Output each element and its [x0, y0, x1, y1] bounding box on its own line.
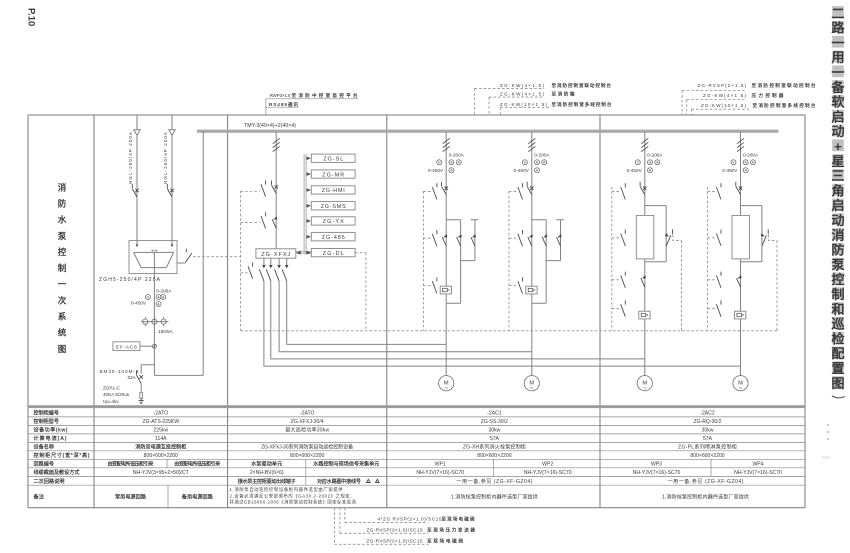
- WP1 delta branch: [446, 220, 460, 304]
- svg-text:800×600×2200: 800×600×2200: [144, 453, 178, 459]
- svg-text:星: 星: [831, 154, 844, 169]
- WP3 tap slashes: [641, 138, 648, 151]
- svg-text:至现场电磁阀: 至现场电磁阀: [427, 537, 463, 544]
- svg-text:57A: 57A: [490, 436, 500, 442]
- WP4 breaker: [736, 182, 742, 195]
- module ZG-YX: [311, 217, 355, 225]
- module ZG-485: [311, 233, 355, 241]
- XFXJ output 3 (to WP3): [271, 258, 645, 359]
- svg-text:WP3: WP3: [651, 462, 662, 468]
- svg-text:控: 控: [58, 247, 67, 257]
- WP4 thermal relay: [735, 311, 746, 319]
- drawing frame: [28, 115, 805, 508]
- incoming feeder 2 breaker: [167, 184, 173, 197]
- svg-text:0-200A: 0-200A: [743, 152, 759, 157]
- svg-text:至现场电磁阀: 至现场电磁阀: [442, 516, 475, 523]
- ATS current transformers 160/5A: [141, 317, 169, 327]
- svg-text:0-200A: 0-200A: [156, 288, 172, 293]
- svg-text:ZGP1-C: ZGP1-C: [103, 386, 121, 391]
- WP3 voltmeter: [635, 160, 640, 165]
- svg-text:消: 消: [58, 182, 67, 192]
- svg-text:P.10: P.10: [26, 8, 37, 26]
- svg-text:至消防中控室监控平台: 至消防中控室监控平台: [292, 92, 358, 99]
- WP2 delta branch: [532, 220, 546, 304]
- svg-text:-2ATO: -2ATO: [154, 411, 169, 417]
- svg-text:-2AC2: -2AC2: [700, 411, 715, 417]
- WP4 voltmeter: [731, 160, 736, 165]
- WP3 aux switch 2: [612, 237, 621, 239]
- svg-text:至消防控制室多线控制台: 至消防控制室多线控制台: [753, 102, 816, 109]
- busbar TMY-3(40x4)+2(40x4): [197, 130, 778, 133]
- WP2 aux switch 3: [509, 285, 518, 287]
- svg-text:EF-ACS: EF-ACS: [116, 345, 137, 351]
- svg-text:ZG-RVSP(2×1.0)/SC15: ZG-RVSP(2×1.0)/SC15: [367, 527, 423, 532]
- svg-text:NH-YJV(7×16)-SC70: NH-YJV(7×16)-SC70: [734, 470, 782, 476]
- svg-text:ZG-SS-30/2: ZG-SS-30/2: [481, 419, 508, 425]
- WP3 thermal relay: [639, 311, 650, 319]
- WP3 bypass contactor: [665, 229, 672, 246]
- motor M4: [733, 376, 748, 393]
- svg-text:制: 制: [58, 263, 67, 273]
- svg-text:动: 动: [831, 124, 844, 139]
- WP3 aux dashed line: [611, 187, 613, 331]
- svg-text:2.设备必须满足公安部颁布的《GA30.2-2002》之规定: 2.设备必须满足公安部颁布的《GA30.2-2002》之规定,: [230, 492, 352, 499]
- XFXJ dashed aux line: [240, 191, 242, 331]
- WP1 voltmeter: [437, 160, 442, 165]
- WP1 aux switch 3: [423, 285, 432, 287]
- svg-text:ZG-ATS-225KW: ZG-ATS-225KW: [142, 419, 179, 425]
- svg-text:一: 一: [58, 279, 67, 289]
- WP2 aux switch 1: [509, 190, 518, 192]
- WP3 soft starter box: [636, 215, 654, 259]
- WP3 main wire: [644, 132, 646, 376]
- svg-text:设备名称: 设备名称: [34, 444, 55, 451]
- svg-text:ZG-YX: ZG-YX: [323, 219, 344, 225]
- svg-text:ZG-RQ-30/2: ZG-RQ-30/2: [693, 419, 721, 425]
- svg-text:BM30-100M-3: BM30-100M-3: [100, 369, 139, 374]
- svg-text:114A: 114A: [155, 436, 167, 442]
- WP3 aux switch 1: [612, 190, 621, 192]
- svg-text:消防双电源互投控制柜: 消防双电源互投控制柜: [135, 444, 186, 451]
- svg-text:ZG-SL: ZG-SL: [323, 157, 343, 163]
- svg-text:+: +: [834, 139, 842, 154]
- right sheet title 二路一用一备软启动＋星三角启动消防泵控制和巡检配置图: [832, 6, 844, 388]
- svg-text:ZG-XFXJ-30/4: ZG-XFXJ-30/4: [291, 419, 324, 425]
- motor M3: [637, 376, 652, 393]
- svg-text:800×600×2200: 800×600×2200: [290, 453, 324, 459]
- XFXJ aux switch 2: [241, 222, 260, 224]
- incoming feeder 1 wire: [136, 135, 138, 240]
- WP2 thermal relay: [526, 286, 537, 294]
- WP3 aux switch 3: [612, 279, 621, 281]
- WP4 aux dashed line: [707, 187, 709, 331]
- module ZG-DL: [311, 249, 355, 257]
- svg-text:ZG-XH系列消火栓泵控制柜: ZG-XH系列消火栓泵控制柜: [463, 444, 526, 451]
- WP4 bypass contactor: [761, 229, 768, 246]
- svg-text:0-450V: 0-450V: [722, 168, 738, 173]
- svg-text:1.消防泵自动巡检控制设备柜内器件选型由厂家提供: 1.消防泵自动巡检控制设备柜内器件选型由厂家提供: [230, 486, 344, 493]
- table row lines: [28, 417, 805, 485]
- svg-text:图: 图: [831, 376, 844, 391]
- svg-text:ZG-XFXJ: ZG-XFXJ: [261, 252, 290, 258]
- motor M1: [439, 376, 454, 393]
- svg-text:RWP3×1.5: RWP3×1.5: [270, 93, 291, 98]
- svg-text:二次回路说明: 二次回路说明: [34, 478, 65, 485]
- WP2 contactor KM3: [557, 234, 562, 246]
- svg-text:至消防箱: 至消防箱: [552, 90, 575, 97]
- BOTTOM CABLE CALLOUTS: [367, 516, 476, 545]
- incoming feeder 2 arrow: [171, 115, 173, 130]
- XFXJ feeder contactor: [272, 216, 277, 228]
- svg-text:泵: 泵: [58, 231, 67, 241]
- svg-text:一: 一: [831, 35, 844, 50]
- XFXJ output 4 (to WP4): [264, 258, 741, 366]
- WP2 main wire: [531, 132, 533, 376]
- WP2 voltmeter: [522, 160, 527, 165]
- table bottom line: [28, 507, 805, 509]
- svg-text:回路编号: 回路编号: [34, 461, 55, 468]
- WP4 main wire: [740, 132, 742, 376]
- svg-text:Up=4kv: Up=4kv: [103, 399, 119, 404]
- WP3 ammeters: [648, 160, 653, 165]
- svg-text:线缆截面及敷设方式: 线缆截面及敷设方式: [34, 469, 81, 476]
- WP2 ammeters: [535, 160, 540, 165]
- TABLE VALUES: [108, 411, 783, 501]
- svg-text:NH-YJV(7×16)-SC70: NH-YJV(7×16)-SC70: [416, 470, 464, 476]
- svg-text:30kw: 30kw: [488, 428, 500, 434]
- WP1 breaker: [442, 182, 448, 195]
- table top thick bar: [28, 405, 805, 408]
- svg-text:225kw: 225kw: [153, 428, 168, 434]
- svg-text:水: 水: [57, 215, 67, 225]
- WP3 bypass branch: [645, 206, 666, 262]
- link XFXJ to ZG-DL (double line with arrows): [296, 252, 312, 254]
- svg-text:0-450V: 0-450V: [428, 168, 444, 173]
- WP4 aux switch 3: [708, 279, 717, 281]
- svg-text:TMY-3(40×4)+2(40×4): TMY-3(40×4)+2(40×4): [244, 123, 296, 129]
- WP1 thermal relay: [440, 286, 451, 294]
- module ZG-HMI: [311, 186, 355, 194]
- svg-text:0-450V: 0-450V: [514, 168, 530, 173]
- svg-text:启: 启: [831, 108, 844, 124]
- svg-text:ZG-PL系列喷淋泵控制柜: ZG-PL系列喷淋泵控制柜: [678, 444, 737, 451]
- svg-text:由变配电所低压柜引来: 由变配电所低压柜引来: [108, 461, 155, 468]
- svg-text:动: 动: [831, 213, 844, 228]
- svg-text:NH-YJV(7×16)-SC70: NH-YJV(7×16)-SC70: [524, 470, 572, 476]
- svg-text:备用电源回路: 备用电源回路: [181, 493, 214, 500]
- svg-text:30kw: 30kw: [702, 428, 714, 434]
- column divider x602: [599, 115, 601, 508]
- svg-text:角: 角: [831, 182, 844, 198]
- svg-text:NH-YJV(3×95+2×50)/CT: NH-YJV(3×95+2×50)/CT: [133, 470, 189, 476]
- RS485 callout leader: [265, 99, 267, 115]
- svg-text:一: 一: [831, 65, 844, 80]
- svg-text:至消防控制室多线控制台: 至消防控制室多线控制台: [552, 101, 612, 108]
- svg-text:水泵驱动单元: 水泵驱动单元: [250, 461, 282, 468]
- svg-text:ZG-SMS: ZG-SMS: [321, 204, 346, 210]
- column divider x227.6: [227, 115, 229, 508]
- svg-text:设备功率(kw): 设备功率(kw): [34, 427, 68, 434]
- WP3 bypass aux dashed link: [673, 235, 682, 331]
- svg-text:最大巡检功率30kw: 最大巡检功率30kw: [285, 427, 329, 434]
- svg-text:ZG-RVSP(2×1.0)/SC15: ZG-RVSP(2×1.0)/SC15: [367, 538, 423, 543]
- ATS transfer switch ZGH5-250/4P 225A: [129, 241, 177, 274]
- incoming feeder 2 wire: [171, 135, 173, 240]
- WP1 star point bar: [461, 220, 479, 261]
- svg-text:0-200A: 0-200A: [647, 152, 663, 157]
- svg-text:统: 统: [58, 328, 67, 338]
- svg-text:配: 配: [831, 346, 845, 361]
- WP1 tap slashes: [443, 138, 450, 151]
- svg-text:0-200A: 0-200A: [449, 152, 465, 157]
- WP4 tap slashes: [737, 138, 744, 151]
- svg-text:NH-YJV(7×16)-SC70: NH-YJV(7×16)-SC70: [633, 470, 681, 476]
- ATS auxiliary contact to XFXJ (dashed): [177, 262, 185, 264]
- svg-text:置: 置: [831, 361, 844, 376]
- WP3 aux switch 4: [612, 308, 621, 310]
- module ZG-SL: [311, 154, 355, 162]
- svg-text:一用一备,参见 (ZG-XF-GZ04): 一用一备,参见 (ZG-XF-GZ04): [456, 478, 532, 485]
- svg-text:对应水路图中接线号: 对应水路图中接线号: [317, 478, 361, 485]
- transducer circle: [152, 344, 156, 348]
- WP1 aux switch 1: [423, 190, 432, 192]
- svg-text:控制柜型号: 控制柜型号: [34, 418, 60, 425]
- svg-text:-2ATO: -2ATO: [300, 411, 315, 417]
- svg-text:RS485通讯: RS485通讯: [269, 101, 298, 108]
- svg-text:系: 系: [58, 312, 67, 322]
- branch to surge protector: [141, 365, 154, 374]
- WP4 bypass aux dashed link: [769, 235, 778, 331]
- svg-text:ZG-KW(10×1.5): ZG-KW(10×1.5): [500, 102, 547, 107]
- svg-text:常用电源回路: 常用电源回路: [115, 493, 147, 500]
- svg-text:ZG-485: ZG-485: [322, 235, 345, 241]
- svg-text:ZG-KW(10×1.5): ZG-KW(10×1.5): [701, 103, 746, 108]
- controller ZG-XFXJ: [256, 249, 296, 258]
- WP1 aux switch 2: [423, 237, 432, 239]
- svg-text:WP1: WP1: [435, 462, 446, 468]
- cubicle enclosure dashed bottom: [241, 330, 777, 332]
- svg-text:800×600×2200: 800×600×2200: [690, 453, 724, 459]
- svg-text:消: 消: [831, 227, 844, 243]
- svg-text:一用一备,参见 (ZG-XF-GZ04): 一用一备,参见 (ZG-XF-GZ04): [668, 478, 744, 485]
- svg-text:和: 和: [830, 302, 844, 317]
- WP2 aux switch 2: [509, 237, 518, 239]
- WP2 breaker: [527, 182, 533, 195]
- WP4 ammeters: [743, 160, 748, 165]
- column divider x386.8: [386, 115, 388, 508]
- rotated open parenthesis after title: [832, 396, 845, 398]
- svg-text:备: 备: [830, 79, 845, 95]
- WP1 ammeters: [449, 160, 454, 165]
- WP2 aux dashed line: [508, 191, 510, 330]
- svg-text:至消防控制室联动控制台: 至消防控制室联动控制台: [752, 82, 816, 89]
- motor M2: [524, 376, 539, 393]
- svg-text:至消防控制室联动控制台: 至消防控制室联动控制台: [552, 82, 612, 89]
- svg-text:57A: 57A: [703, 436, 713, 442]
- WP4 aux switch 2: [708, 237, 717, 239]
- WP2 tap slashes: [528, 138, 535, 151]
- svg-text:63A: 63A: [128, 375, 137, 380]
- svg-text:ZG-KW(4×1.5): ZG-KW(4×1.5): [500, 91, 544, 96]
- svg-text:三: 三: [831, 169, 844, 184]
- svg-text:检: 检: [831, 330, 845, 346]
- svg-text:ZG-KW(4×1.5): ZG-KW(4×1.5): [703, 93, 746, 98]
- svg-text:0-450V: 0-450V: [627, 168, 643, 173]
- svg-text:1.消防栓泵控制柜内器件选型厂家提供: 1.消防栓泵控制柜内器件选型厂家提供: [451, 493, 538, 500]
- XFXJ remark note 3 lines: [230, 486, 358, 506]
- WP4 main contactor: [737, 275, 742, 287]
- svg-text:路: 路: [831, 20, 845, 36]
- svg-text:ZG-RVSP(2×1.5): ZG-RVSP(2×1.5): [698, 83, 747, 88]
- TABLE ROW HEADERS: [33, 410, 90, 501]
- incoming feeder 1 arrow: [136, 115, 138, 130]
- WP4 soft starter box: [732, 215, 750, 259]
- XFXJ feeder tap wire: [275, 132, 277, 249]
- XFXJ feeder 3-phase slashes: [273, 138, 280, 151]
- svg-text:40KA 8/20us: 40KA 8/20us: [103, 392, 130, 397]
- svg-text:二: 二: [831, 6, 844, 21]
- WP1 contactor KM3: [471, 234, 476, 246]
- svg-text:图: 图: [58, 344, 67, 354]
- WP2 star point bar: [546, 220, 564, 261]
- svg-text:用: 用: [831, 50, 844, 65]
- svg-text:控制柜编号: 控制柜编号: [34, 410, 60, 417]
- svg-text:计算电流(A): 计算电流(A): [34, 435, 67, 442]
- WP1 contactor KM2: [457, 234, 462, 246]
- EF-ACS link wire: [140, 345, 152, 347]
- WP2 contactor KM2: [542, 234, 547, 246]
- ZG-DL dashed stub to cubicle edge: [355, 253, 366, 331]
- svg-text:备注: 备注: [33, 493, 45, 500]
- WP1 main wire: [445, 132, 447, 376]
- svg-text:160/5A: 160/5A: [158, 329, 173, 334]
- incoming feeder 1 breaker: [132, 184, 138, 197]
- ground: [139, 398, 144, 403]
- WP2 contactor KM1: [528, 234, 533, 246]
- svg-text:-2AC1: -2AC1: [487, 411, 502, 417]
- svg-text:至现场压力变送器: 至现场压力变送器: [427, 526, 475, 533]
- svg-text:并通过GB16806-2006《消防联动控制系统》国家标准监: 并通过GB16806-2006《消防联动控制系统》国家标准监测.: [230, 499, 358, 506]
- module bus (vertical double line): [304, 154, 306, 253]
- WP1 aux dashed line: [422, 191, 424, 330]
- svg-text:800×600×2200: 800×600×2200: [477, 453, 511, 459]
- svg-text:4*ZG RVSP(2×1.0)/SC15: 4*ZG RVSP(2×1.0)/SC15: [378, 517, 442, 522]
- svg-text:泵: 泵: [831, 257, 845, 272]
- WP1 contactor KM1: [442, 234, 447, 246]
- svg-text:1.消防栓泵控制柜内器件选型厂家提供: 1.消防栓泵控制柜内器件选型厂家提供: [662, 493, 749, 500]
- column divider x94: [93, 115, 95, 508]
- svg-text:接水泵主控柜驱动出线端子: 接水泵主控柜驱动出线端子: [238, 478, 296, 485]
- WP4 aux switch 4: [708, 308, 717, 310]
- svg-text:ZG-XFXJ-30系列消防泵自动巡检控制设备: ZG-XFXJ-30系列消防泵自动巡检控制设备: [261, 444, 353, 451]
- XFXJ aux switch 3: [241, 272, 248, 274]
- svg-text:ZG-HMI: ZG-HMI: [322, 188, 345, 194]
- breaker BM30-100M-3 63A: [137, 371, 143, 384]
- svg-text:WP4: WP4: [752, 462, 763, 468]
- svg-text:次: 次: [58, 295, 67, 305]
- svg-text:防: 防: [831, 242, 844, 258]
- ATS output to bus riser: [154, 131, 203, 376]
- module ZG-MR: [311, 170, 355, 178]
- left vertical label 消防水泵控制一次系统图: [57, 182, 67, 353]
- triangles in 二次回路说明 cell: [367, 479, 380, 482]
- XFXJ output 2 (to WP2): [279, 258, 532, 352]
- module ZG-SMS: [311, 202, 355, 210]
- table sub dividers: [167, 459, 711, 507]
- WP4 bypass branch: [741, 206, 762, 262]
- svg-text:软: 软: [831, 94, 845, 110]
- ATS output wire: [153, 268, 155, 376]
- WP3 main contactor: [641, 275, 646, 287]
- WP3 breaker: [640, 182, 646, 195]
- svg-text:水路控制与现场信号采集单元: 水路控制与现场信号采集单元: [312, 461, 379, 468]
- XFXJ feeder breaker: [272, 181, 278, 194]
- ATS voltmeter 0-450V: [145, 295, 150, 300]
- XFXJ output 1 (to WP1): [287, 258, 447, 344]
- WP4 aux switch 1: [708, 190, 717, 192]
- svg-text:启: 启: [831, 197, 844, 213]
- faint marks right of frame: [822, 424, 830, 459]
- svg-text:控制柜尺寸(宽*深*高): 控制柜尺寸(宽*深*高): [34, 452, 90, 459]
- svg-text:控: 控: [831, 271, 844, 287]
- svg-text:2×NH-BV(6×6): 2×NH-BV(6×6): [250, 470, 284, 476]
- svg-text:0-200A: 0-200A: [534, 152, 550, 157]
- svg-text:制: 制: [831, 286, 844, 302]
- svg-text:WP2: WP2: [542, 462, 553, 468]
- surge protector ZGP1-C: [140, 384, 142, 393]
- ATS ammeters 0-200A: [156, 295, 161, 300]
- svg-text:ZG-DL: ZG-DL: [323, 251, 344, 257]
- svg-text:0-450V: 0-450V: [131, 300, 147, 305]
- svg-text:ZG-KW(4×1.5): ZG-KW(4×1.5): [500, 83, 544, 88]
- EF-ACS meter box: [113, 342, 140, 351]
- svg-text:防: 防: [58, 199, 67, 209]
- svg-text:巡: 巡: [831, 317, 845, 332]
- svg-text:由变配电所低压柜引来: 由变配电所低压柜引来: [174, 461, 221, 468]
- svg-text:ZGH5-250/4P 225A: ZGH5-250/4P 225A: [99, 277, 161, 283]
- XFXJ aux switch 1: [241, 191, 260, 193]
